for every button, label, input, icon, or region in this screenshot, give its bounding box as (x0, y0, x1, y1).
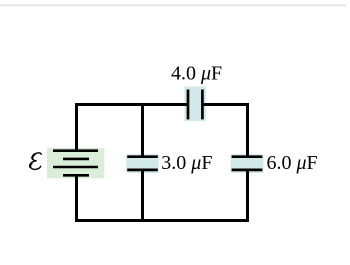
wire middle upper (141, 103, 144, 157)
capacitor C1 4.0uF highlight box (184, 87, 206, 122)
wire left lower (75, 175, 78, 222)
svg-text:3.0 μF: 3.0 μF (161, 152, 212, 174)
capacitor C1 4.0uF plates (188, 90, 202, 120)
battery box highlight (47, 148, 104, 178)
wire left upper (75, 103, 78, 152)
capacitor C2 3.0uF plates (127, 157, 158, 170)
EMF symbol script E (30, 153, 41, 170)
top gray rule (0, 5, 346, 7)
capacitor C3 6.0uF plates (232, 157, 263, 170)
wire top-right segment (202, 103, 249, 106)
wire bottom (75, 219, 249, 222)
svg-text:4.0 μF: 4.0 μF (171, 62, 222, 84)
wire right lower (246, 170, 249, 222)
svg-text:6.0 μF: 6.0 μF (267, 152, 318, 174)
capacitor C3 6.0uF highlight box (231, 154, 264, 173)
battery B1 plates (53, 151, 98, 176)
wire top-left segment (75, 103, 188, 106)
wire right upper (246, 103, 249, 157)
capacitor C2 3.0uF highlight box (126, 154, 159, 173)
wire middle lower (141, 170, 144, 222)
